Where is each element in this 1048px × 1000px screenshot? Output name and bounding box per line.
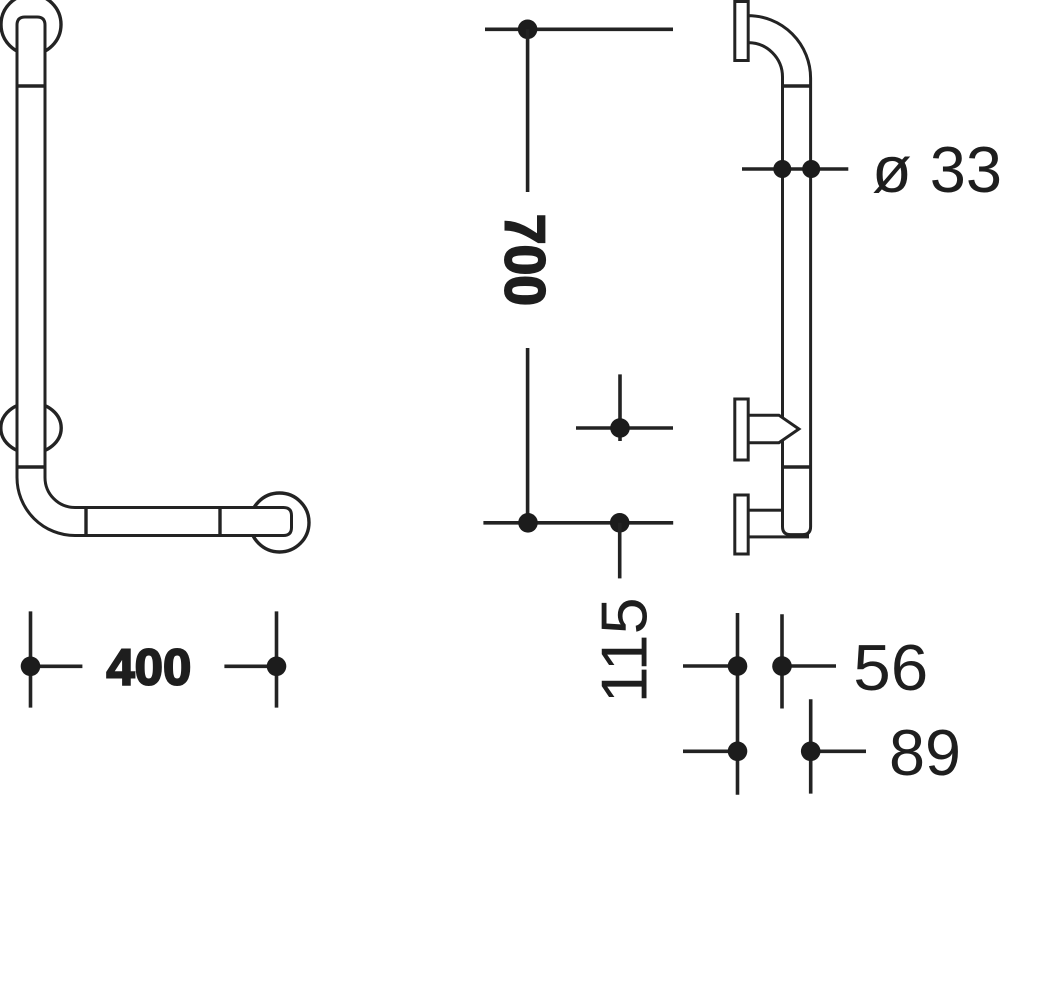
dimension 89: left lead line bbox=[683, 749, 738, 753]
front view: middle wall flange circle bbox=[1, 403, 61, 453]
svg-text:56: 56 bbox=[853, 631, 928, 704]
dimension 400: right node dot bbox=[267, 657, 287, 677]
dimension 700: top reference line bbox=[485, 27, 673, 31]
dimension 115: top vertical tick bbox=[618, 374, 622, 441]
dimension 115: bottom vertical tick bbox=[618, 523, 622, 579]
front view: tube joint line below middle flange bbox=[17, 465, 45, 468]
dimension 400: value label bbox=[106, 639, 191, 696]
dimension diameter 33: value label bbox=[872, 133, 1002, 206]
dimension 89: left node dot bbox=[728, 742, 748, 762]
dimension 115: bottom node dot bbox=[610, 513, 630, 533]
dimension 56: right lead line bbox=[782, 664, 836, 668]
dimension 89: value label bbox=[889, 716, 961, 789]
dimension 700: value label bbox=[493, 214, 557, 306]
dimension 56: left extension line bbox=[736, 613, 740, 795]
dimension 115: value label bbox=[588, 597, 661, 703]
side view: bottom wall plate bbox=[735, 495, 748, 554]
dimension 700: bottom reference line bbox=[483, 521, 673, 525]
dimension 89: right extension line bbox=[809, 699, 813, 793]
side view: lower tube joint line bbox=[783, 465, 811, 468]
dimension 56: value label bbox=[853, 631, 928, 704]
dimension 400: left extension line bbox=[29, 611, 33, 707]
front view: top wall flange circle bbox=[1, 0, 61, 55]
svg-text:ø 33: ø 33 bbox=[872, 133, 1002, 206]
dimension 56: left lead line bbox=[683, 664, 738, 668]
dimension 400: right lead line bbox=[224, 664, 276, 668]
side view: lower support arm bbox=[747, 510, 808, 537]
svg-text:400: 400 bbox=[106, 639, 191, 696]
side view: middle support arm with pointed tip bbox=[747, 415, 799, 443]
dimension 115: top reference line bbox=[576, 426, 673, 430]
dimension 400: left node dot bbox=[21, 657, 41, 677]
dimension diameter 33: right node dot bbox=[802, 160, 820, 178]
side view: upper tube joint line bbox=[783, 84, 811, 87]
side view: top wall plate bbox=[735, 2, 748, 61]
dimension 700: vertical line lower segment bbox=[526, 348, 530, 523]
dimension diameter 33: left node dot bbox=[773, 160, 791, 178]
dimension 700: vertical line upper segment bbox=[526, 29, 530, 192]
dimension 89: right lead line bbox=[811, 749, 866, 753]
dimension 700: top node dot bbox=[518, 20, 538, 40]
dimension 400: left lead line bbox=[31, 664, 83, 668]
dimension 400: right extension line bbox=[275, 611, 279, 707]
dimension 89: right node dot bbox=[801, 742, 821, 762]
svg-text:115: 115 bbox=[588, 597, 661, 703]
front view: right end wall flange circle bbox=[250, 493, 309, 552]
side view: tube bent profile bbox=[748, 16, 811, 535]
svg-text:700: 700 bbox=[493, 214, 557, 306]
dimension diameter 33: reference line bbox=[742, 167, 848, 171]
dimension 115: top node dot bbox=[610, 418, 630, 438]
dimension 700: bottom node dot bbox=[518, 513, 538, 533]
side view: middle wall plate bbox=[735, 399, 748, 460]
dimension 56: right extension line bbox=[780, 614, 784, 708]
dimension 56: left node dot bbox=[728, 656, 748, 676]
front view: joint line on horizontal tube right bbox=[218, 508, 221, 536]
dimension 56: right node dot bbox=[772, 656, 792, 676]
front view: tube joint line below top flange bbox=[17, 84, 45, 87]
svg-text:89: 89 bbox=[889, 716, 961, 789]
front view: L-shaped grab bar tube body bbox=[17, 17, 292, 536]
front view: joint line on horizontal tube left bbox=[84, 508, 87, 536]
